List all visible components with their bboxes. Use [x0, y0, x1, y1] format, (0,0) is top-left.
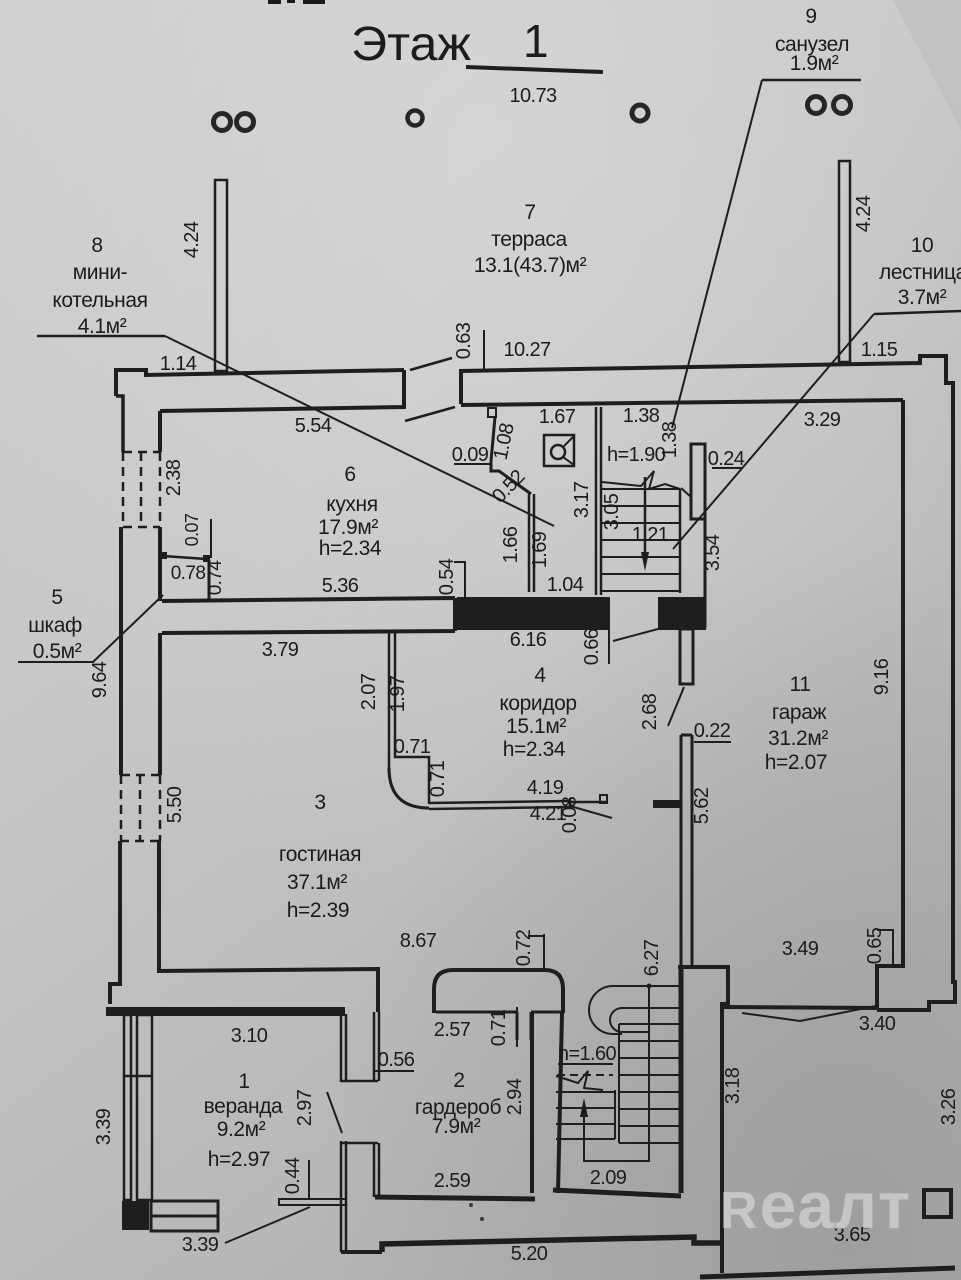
boiler niche stub	[488, 408, 496, 417]
title underline	[466, 67, 603, 72]
island wall block rounded	[434, 970, 563, 1013]
svg-text:0.74: 0.74	[205, 560, 226, 596]
house south wall	[382, 1237, 722, 1252]
svg-text:0.24: 0.24	[708, 448, 745, 470]
corridor south wall thin part	[570, 799, 607, 808]
svg-text:веранда: веранда	[204, 1095, 283, 1118]
punch hole pair left	[214, 114, 231, 131]
corridor south double wall	[429, 801, 570, 809]
svg-text:1.97: 1.97	[387, 675, 409, 712]
svg-text:2.09: 2.09	[590, 1167, 627, 1189]
boiler east double wall	[529, 494, 534, 592]
svg-text:2.59: 2.59	[434, 1170, 471, 1192]
svg-text:7: 7	[524, 201, 535, 224]
svg-text:4: 4	[534, 664, 546, 687]
witness line 0.63	[483, 330, 485, 370]
svg-text:0.09: 0.09	[452, 444, 489, 466]
window dashed living room	[120, 775, 160, 841]
svg-text:1.21: 1.21	[632, 524, 669, 546]
svg-text:1.67: 1.67	[539, 406, 576, 428]
label line lestnitsa	[874, 311, 961, 314]
leader mini-kotelnaya to boiler room	[165, 336, 554, 526]
upper stair break line with zigzag	[602, 471, 680, 489]
svg-text:4.24: 4.24	[853, 195, 875, 232]
svg-text:15.1м²: 15.1м²	[506, 715, 566, 738]
leader 3.39	[225, 1207, 310, 1243]
svg-text:31.2м²: 31.2м²	[768, 727, 828, 750]
svg-text:2.57: 2.57	[434, 1019, 471, 1041]
wardrobe west double wall upper	[374, 1012, 379, 1081]
svg-text:9: 9	[805, 5, 816, 28]
kitchen west inner wall solid parts	[159, 411, 160, 971]
svg-text:0.07: 0.07	[182, 513, 202, 546]
svg-text:1.14: 1.14	[160, 353, 197, 375]
veranda east double wall lower	[341, 1141, 378, 1252]
svg-text:3.39: 3.39	[93, 1108, 115, 1145]
lower stair upper steps	[649, 986, 680, 1008]
svg-text:8.67: 8.67	[400, 930, 437, 952]
svg-text:h=2.07: h=2.07	[765, 751, 827, 774]
svg-text:2.94: 2.94	[504, 1078, 526, 1115]
walk line start dot	[647, 984, 652, 989]
svg-text:1.15: 1.15	[861, 339, 898, 361]
svg-text:гараж: гараж	[772, 701, 827, 724]
witness 0.54	[454, 562, 466, 598]
svg-text:3.05: 3.05	[601, 493, 623, 530]
svg-text:1: 1	[238, 1070, 249, 1093]
leader shkaf	[18, 595, 163, 662]
svg-text:гостиная: гостиная	[279, 843, 361, 866]
lower stair walk arrow	[580, 1098, 588, 1117]
svg-text:котельная: котельная	[52, 289, 147, 312]
witness 0.72	[528, 934, 545, 970]
svg-text:0.56: 0.56	[378, 1049, 415, 1071]
svg-text:3.49: 3.49	[782, 938, 819, 960]
svg-text:9.16: 9.16	[871, 658, 893, 695]
svg-text:3.7м²: 3.7м²	[898, 286, 947, 309]
svg-text:0.66: 0.66	[581, 628, 603, 665]
svg-text:шкаф: шкаф	[28, 614, 82, 637]
svg-text:2: 2	[453, 1069, 464, 1092]
svg-text:13.1(43.7)м²: 13.1(43.7)м²	[474, 254, 587, 277]
svg-text:3.39: 3.39	[182, 1234, 219, 1256]
leader sanuzel to stairs	[672, 80, 762, 428]
south-east outer wall bottom	[700, 1268, 955, 1277]
left outer wall step	[116, 396, 123, 452]
svg-text:5.50: 5.50	[164, 786, 186, 823]
porch south wall left	[341, 1250, 382, 1254]
svg-text:2.68: 2.68	[639, 693, 661, 730]
leader 2.68	[668, 687, 684, 726]
svg-text:3.54: 3.54	[702, 534, 724, 571]
leader lestnitsa to stairs	[673, 314, 874, 549]
lower stair handrail outer loop	[589, 986, 649, 1034]
corridor-living double wall	[389, 633, 429, 804]
wardrobe west double wall lower	[374, 1143, 379, 1197]
lower stair left flight steps	[556, 1092, 615, 1139]
stair-garage wall 3.54	[704, 519, 707, 628]
living south inner wall	[157, 969, 378, 1012]
svg-text:8: 8	[91, 234, 102, 257]
filled wall stair south	[658, 597, 706, 630]
svg-text:2.07: 2.07	[358, 673, 380, 710]
svg-text:h=2.97: h=2.97	[208, 1148, 270, 1171]
label line sanuzel	[762, 79, 861, 82]
leader garage gate 3.40	[742, 1006, 876, 1021]
lower stair full-width steps	[619, 1024, 680, 1143]
svg-text:h=2.34: h=2.34	[503, 738, 566, 761]
witness 0.44	[308, 1160, 310, 1200]
cropped text fragment top edge	[268, 0, 325, 4]
witness 0.65	[877, 930, 894, 968]
svg-text:0.71: 0.71	[394, 736, 431, 758]
svg-text:мини-: мини-	[73, 261, 128, 284]
stair west double wall upper	[596, 407, 601, 595]
svg-text:5.36: 5.36	[322, 575, 359, 597]
wardrobe-stair double wall	[532, 1013, 562, 1193]
svg-text:5.54: 5.54	[295, 415, 332, 437]
lower stair walk line	[584, 987, 649, 1161]
svg-text:10: 10	[911, 234, 934, 257]
corridor corner arc	[389, 768, 429, 808]
punch hole center-left	[408, 111, 423, 126]
filled wall kitchen-stair	[457, 597, 610, 630]
svg-text:5.20: 5.20	[511, 1243, 548, 1265]
svg-text:0.22: 0.22	[694, 720, 731, 742]
witness 0.66	[609, 629, 658, 664]
svg-text:9.2м²: 9.2м²	[217, 1118, 266, 1141]
svg-text:0.54: 0.54	[436, 558, 458, 595]
svg-text:0.72: 0.72	[513, 929, 535, 966]
upper stair down arrow	[644, 477, 647, 556]
svg-text:3.18: 3.18	[722, 1067, 744, 1104]
svg-text:7.9м²: 7.9м²	[432, 1115, 481, 1138]
underline h=1.60	[558, 1063, 613, 1065]
lower stair south wall	[553, 1190, 681, 1196]
svg-text:2.97: 2.97	[294, 1089, 316, 1126]
svg-text:терраса: терраса	[491, 228, 567, 251]
svg-text:6.27: 6.27	[641, 939, 663, 976]
upper stair steps	[602, 489, 680, 591]
underline 0.24	[712, 467, 742, 469]
svg-text:10.27: 10.27	[503, 339, 551, 361]
underline 0.09	[454, 463, 490, 465]
closet corner squares	[160, 552, 167, 559]
lower stair dashed line	[557, 1074, 613, 1076]
svg-text:0.63: 0.63	[453, 322, 475, 359]
svg-text:3.79: 3.79	[262, 639, 299, 661]
kitchen west outer wall solid parts	[110, 527, 121, 1004]
svg-text:0.78: 0.78	[171, 563, 206, 584]
svg-text:10.73: 10.73	[509, 85, 557, 107]
svg-text:1.38: 1.38	[623, 405, 660, 427]
corridor wall end cap	[600, 795, 607, 803]
upper stair right edge	[679, 489, 682, 593]
svg-text:3.40: 3.40	[859, 1013, 896, 1035]
vent icon	[544, 435, 574, 466]
legend square bottom right	[924, 1190, 951, 1217]
lower stair handrail inner loop	[610, 1008, 649, 1032]
lower stair break line	[556, 1071, 603, 1090]
window dashed kitchen	[123, 452, 160, 527]
label line mini-kotelnaya	[37, 335, 165, 338]
svg-text:0.71: 0.71	[488, 1009, 510, 1046]
punch hole pair right	[808, 97, 825, 114]
svg-text:1.9м²: 1.9м²	[790, 52, 839, 75]
svg-text:3.26: 3.26	[938, 1088, 960, 1125]
svg-text:0.65: 0.65	[864, 927, 886, 964]
svg-text:5: 5	[51, 586, 62, 609]
svg-text:0.71: 0.71	[427, 760, 449, 797]
chimney bar right	[839, 161, 850, 362]
witness 0.71 wardrobe door	[516, 1007, 518, 1047]
closet east wall	[208, 560, 211, 601]
garage east inner wall with jog	[877, 400, 903, 1008]
svg-text:37.1м²: 37.1м²	[287, 871, 347, 894]
wardrobe south wall	[375, 1197, 535, 1199]
svg-text:3.17: 3.17	[571, 481, 593, 518]
svg-text:0.08: 0.08	[559, 796, 581, 833]
punch hole center	[632, 105, 648, 121]
top wall left segment inner line	[160, 370, 404, 411]
svg-text:2.38: 2.38	[163, 459, 185, 496]
underline 0.22	[694, 741, 731, 743]
svg-text:3: 3	[314, 791, 325, 814]
wall stub 0.24	[691, 444, 705, 519]
svg-text:1.66: 1.66	[500, 526, 522, 563]
svg-text:17.9м²: 17.9м²	[318, 516, 378, 539]
chimney bar left	[215, 180, 227, 371]
underline 0.56	[375, 1070, 414, 1072]
lower stair flight divider	[618, 1024, 620, 1143]
svg-text:1.69: 1.69	[529, 531, 551, 568]
lower stair east wall	[679, 967, 684, 1193]
veranda south wall stub 0.44	[279, 1199, 346, 1205]
door leaf veranda-wardrobe	[327, 1092, 342, 1133]
svg-text:h=1.90: h=1.90	[607, 444, 666, 466]
veranda north wall filled	[106, 1007, 345, 1016]
svg-text:9.64: 9.64	[89, 661, 111, 698]
veranda south window band	[151, 1201, 218, 1216]
veranda east double wall upper	[341, 1014, 378, 1082]
svg-text:Этаж: Этаж	[351, 18, 471, 71]
svg-text:кухня: кухня	[326, 493, 377, 516]
svg-text:0.44: 0.44	[282, 1157, 304, 1194]
veranda corner post filled	[122, 1201, 149, 1230]
leader 0.07	[210, 519, 212, 558]
leader 0.08	[570, 806, 612, 818]
svg-text:11: 11	[790, 673, 811, 696]
exterior wall block right of lower stair	[678, 967, 728, 1273]
svg-text:h=2.34: h=2.34	[319, 537, 382, 560]
svg-text:6.16: 6.16	[510, 629, 547, 651]
svg-text:4.19: 4.19	[527, 777, 564, 799]
svg-text:1.04: 1.04	[547, 574, 584, 596]
wardrobe north wall with door jambs	[436, 1012, 563, 1040]
closet top slant line	[163, 556, 206, 559]
corridor-garage stub wall	[653, 800, 680, 808]
svg-text:h=2.39: h=2.39	[287, 899, 349, 922]
svg-text:1: 1	[523, 15, 549, 67]
svg-text:h=1.60: h=1.60	[558, 1043, 617, 1065]
boiler slant wall 1.08	[491, 417, 531, 494]
kitchen south wall outline	[162, 598, 455, 633]
dirt specks	[469, 1203, 473, 1207]
svg-text:5.62: 5.62	[691, 787, 713, 824]
svg-text:0.5м²: 0.5м²	[33, 640, 82, 663]
svg-text:лестница: лестница	[879, 261, 961, 284]
svg-text:4.1м²: 4.1м²	[78, 315, 127, 338]
top wall left segment outer line with step	[116, 370, 404, 396]
wall stub below stairs	[680, 629, 693, 684]
svg-text:3.29: 3.29	[804, 409, 841, 431]
top wall right segment outer line and right corner	[461, 356, 955, 1010]
svg-text:коридор: коридор	[499, 692, 576, 715]
veranda west wall window bands	[124, 1015, 131, 1200]
svg-text:3.10: 3.10	[231, 1025, 268, 1047]
top wall right segment / garage top inner line	[461, 400, 903, 405]
door break marks in top wall gap	[405, 407, 455, 421]
garage south wall	[722, 1007, 877, 1008]
svg-text:6: 6	[344, 463, 355, 486]
svg-text:4.24: 4.24	[181, 221, 203, 258]
garage west double wall 0.22	[681, 735, 692, 966]
